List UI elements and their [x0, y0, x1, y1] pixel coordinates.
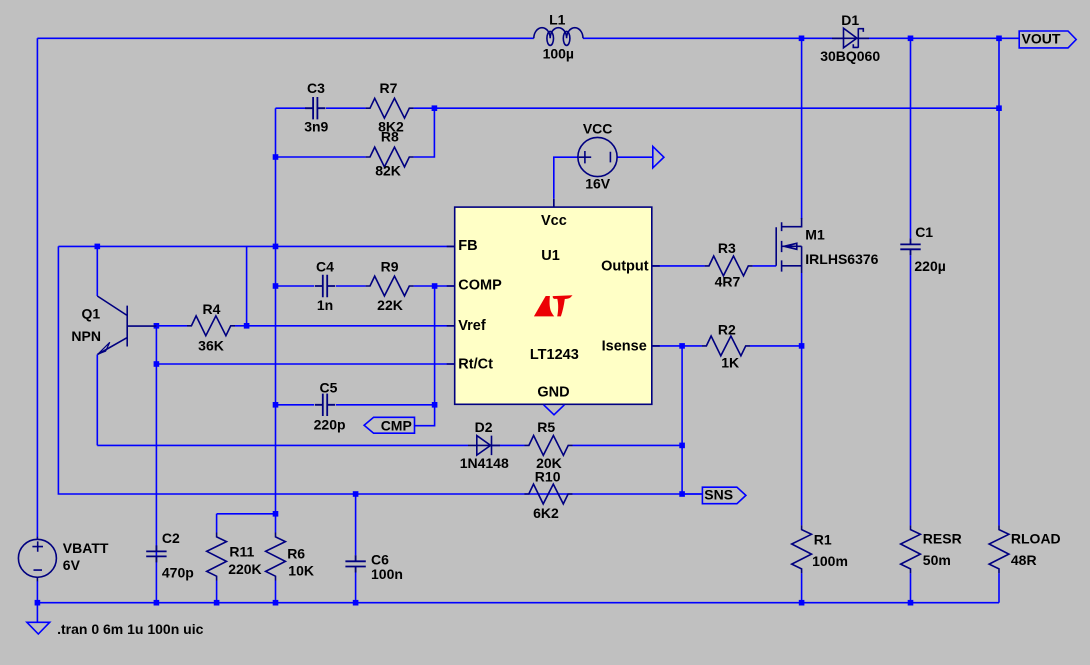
U1 part number LT1243: [530, 347, 579, 363]
wire R5 to x=682 vertical: [573, 444, 683, 446]
svg-text:LT1243: LT1243: [530, 347, 579, 363]
U1 pin label Isense: [602, 338, 647, 354]
junction ground rail / R1: [799, 600, 805, 606]
svg-text:IRLHS6376: IRLHS6376: [805, 251, 878, 267]
svg-text:.tran 0 6m 1u 100n uic: .tran 0 6m 1u 100n uic: [57, 621, 203, 637]
junction C5 line / x=275 vertical: [273, 402, 279, 408]
svg-text:SNS: SNS: [704, 486, 733, 502]
svg-text:NPN: NPN: [71, 328, 101, 344]
resistor R9: [366, 258, 414, 312]
wire emitter to D2: [97, 444, 468, 446]
junction ground rail / R6: [273, 600, 279, 606]
diode D2: [460, 419, 509, 471]
wire C6 top (SNS line down): [355, 494, 357, 555]
wire COMP-CMP vertical (x=435): [434, 286, 436, 405]
resistor RESR: [901, 525, 962, 573]
wire R8 right to R7 junction: [414, 108, 435, 157]
resistor R3: [705, 240, 753, 289]
wire top rail L1 to D1 anode: [583, 37, 844, 39]
svg-text:COMP: COMP: [458, 278, 502, 294]
wire RLOAD column top: [998, 38, 1000, 525]
transistor Q1: [71, 296, 156, 355]
wire R7 to VOUT column: [414, 107, 999, 109]
wire VBATT ground stub: [36, 603, 38, 623]
svg-text:220p: 220p: [314, 416, 346, 432]
svg-text:RESR: RESR: [923, 531, 962, 547]
port flag SNS: [702, 486, 746, 503]
svg-text:C2: C2: [162, 530, 180, 546]
svg-text:C1: C1: [915, 224, 933, 240]
resistor R11: [207, 533, 262, 581]
junction R7-R8 right: [432, 105, 438, 111]
svg-text:VOUT: VOUT: [1022, 31, 1061, 47]
svg-text:C3: C3: [307, 80, 325, 96]
wire U1 Output to R3: [652, 265, 705, 267]
wire D2 to R5: [492, 444, 525, 446]
svg-text:220K: 220K: [228, 561, 261, 577]
svg-text:R3: R3: [718, 240, 736, 256]
svg-text:22K: 22K: [377, 297, 403, 313]
wire R11 top stub: [216, 514, 218, 533]
transistor M1: [776, 218, 878, 273]
junction D2-R5 line / x=682 vertical: [679, 443, 685, 449]
junction C5 line / CMP vertical: [432, 402, 438, 408]
svg-text:100n: 100n: [371, 566, 403, 582]
svg-text:Vcc: Vcc: [541, 213, 567, 229]
svg-text:82K: 82K: [375, 163, 401, 179]
svg-text:CMP: CMP: [381, 417, 412, 433]
svg-text:6K2: 6K2: [533, 505, 559, 521]
wire Rt/Ct line: [156, 363, 454, 365]
wire vertical x=275 (C3 line down to R11/R6 top): [275, 108, 277, 514]
svg-text:470p: 470p: [162, 565, 194, 581]
wire M1 source down to R1: [801, 273, 803, 525]
junction ground rail / RESR: [908, 600, 914, 606]
junction feedback line / VOUT column: [996, 105, 1002, 111]
svg-text:VBATT: VBATT: [63, 540, 109, 556]
junction SNS line / x=682 vertical: [679, 491, 685, 497]
svg-text:RLOAD: RLOAD: [1011, 531, 1061, 547]
wire R8 line: [276, 156, 366, 158]
wire Isense vertical x=682: [681, 346, 683, 494]
U1 pin label Vcc: [541, 213, 567, 229]
wire vertical x=156 (Vref junction down through C2 to ground): [155, 326, 157, 603]
svg-text:36K: 36K: [198, 338, 224, 354]
wire VCC source leads: [554, 157, 578, 199]
resistor RLOAD: [989, 525, 1061, 573]
wire C3/R7 feedback line (y=108): [276, 107, 307, 109]
op-amp controller U1 LT1243 body: [447, 199, 660, 404]
wire Q1 emitter down: [96, 355, 98, 446]
wire top rail D1 cathode to VOUT: [858, 37, 1019, 39]
resistor R4: [187, 301, 235, 354]
svg-text:C4: C4: [316, 258, 334, 274]
wire bottom ground rail: [37, 602, 999, 604]
wire VCC right lead to arrow: [617, 156, 653, 158]
wire CMP flag stub: [415, 405, 435, 426]
spice directive: [57, 621, 203, 637]
resistor R6: [266, 533, 314, 581]
wire R6 top stub: [275, 514, 277, 533]
junction top rail / C1: [908, 36, 914, 42]
junction ground rail / R11: [214, 600, 220, 606]
wire C4 to R9: [336, 285, 366, 287]
wire R6 bottom stub: [275, 581, 277, 603]
wire FB to Vref vertical (x=247): [246, 246, 248, 325]
wire RLOAD to ground rail: [998, 573, 1000, 603]
svg-text:100µ: 100µ: [543, 45, 574, 61]
wire VBATT- to ground rail: [36, 581, 38, 603]
svg-text:C5: C5: [320, 379, 338, 395]
svg-text:R11: R11: [229, 543, 254, 559]
U1 pin label Vref: [458, 318, 486, 334]
junction R2 / M1 source rail: [799, 343, 805, 349]
wire M1 drain up to top rail: [801, 38, 803, 219]
svg-text:R8: R8: [381, 128, 399, 144]
inductor L1: [534, 11, 583, 61]
capacitor C3: [304, 80, 328, 135]
U1 GND pin triangle: [544, 405, 565, 415]
svg-text:VCC: VCC: [583, 121, 613, 137]
svg-text:220µ: 220µ: [914, 258, 945, 274]
junction SNS line / C6: [353, 491, 359, 497]
svg-text:Rt/Ct: Rt/Ct: [458, 356, 493, 372]
svg-text:100m: 100m: [812, 553, 848, 569]
wire C1 column top: [910, 38, 912, 238]
wire C1 to RESR: [910, 255, 912, 525]
wire R11/R6 top link: [217, 513, 276, 515]
ground: [27, 622, 50, 634]
svg-text:6V: 6V: [63, 557, 81, 573]
wire R3 to M1 gate: [753, 265, 777, 267]
svg-text:10K: 10K: [288, 563, 314, 579]
voltage source VBATT 6V: [18, 537, 108, 581]
svg-text:R5: R5: [537, 419, 555, 435]
resistor R5: [525, 419, 573, 471]
wire SNS line to flag: [682, 493, 702, 495]
junction ground rail / C6: [353, 600, 359, 606]
junction ground rail / VBATT: [35, 600, 41, 606]
wire FB-to-SNS vertical (x=58): [58, 246, 702, 494]
svg-text:30BQ060: 30BQ060: [820, 48, 880, 64]
resistor R1: [792, 525, 848, 573]
svg-text:Isense: Isense: [602, 338, 647, 354]
wire left rail (top rail down to VBATT+): [36, 38, 38, 537]
svg-text:R4: R4: [203, 301, 221, 317]
U1 pin label COMP: [458, 278, 502, 294]
port flag CMP: [364, 417, 414, 433]
svg-text:Vref: Vref: [458, 318, 486, 334]
junction FB / x=275 vertical: [273, 244, 279, 250]
wire Vref line left of R4: [156, 325, 187, 327]
svg-text:3n9: 3n9: [304, 118, 328, 134]
resistor R8: [366, 128, 414, 178]
U1 designator: [541, 248, 560, 264]
svg-text:R1: R1: [814, 532, 832, 548]
wire U1 Isense to R2: [652, 345, 702, 347]
junction R11/R6 top / x=275 vertical: [273, 511, 279, 517]
diode D1: [820, 12, 880, 64]
wire FB line (y=246): [58, 245, 454, 247]
resistor R2: [702, 321, 750, 370]
capacitor C4: [315, 258, 335, 312]
svg-text:48R: 48R: [1011, 552, 1037, 568]
U1 pin label GND: [537, 385, 569, 401]
svg-text:Q1: Q1: [81, 306, 100, 322]
junction Rt/Ct / x=156 vertical: [154, 361, 160, 367]
svg-text:GND: GND: [537, 385, 569, 401]
svg-text:4R7: 4R7: [715, 273, 741, 289]
wire C6 bottom: [355, 573, 357, 603]
resistor R7: [366, 80, 414, 135]
svg-text:M1: M1: [805, 226, 825, 242]
svg-text:1n: 1n: [317, 297, 333, 313]
arrow marker at VCC output: [653, 146, 664, 168]
wire COMP line left (to C4): [276, 285, 315, 287]
junction Isense / x=682 vertical: [679, 343, 685, 349]
svg-text:U1: U1: [541, 248, 560, 264]
junction Vref / Q1 base / R4: [154, 323, 160, 329]
junction COMP / CMP vertical: [432, 283, 438, 289]
resistor R10: [524, 469, 572, 521]
wire C5 line left: [276, 404, 315, 406]
wire R9 to U1 COMP: [414, 285, 455, 287]
junction FB / Q1 collector: [95, 244, 101, 250]
wire top rail left segment (VBATT+ to L1): [37, 37, 533, 39]
wire C5 to CMP vertical: [336, 404, 435, 406]
svg-text:D2: D2: [475, 419, 493, 435]
junction top rail / M1 drain: [799, 36, 805, 42]
voltage source VCC 16V: [554, 121, 617, 208]
wire R2 to M1 source rail: [750, 345, 802, 347]
U1 pin label FB: [458, 238, 477, 254]
wire R11 bottom stub: [216, 581, 218, 603]
svg-text:R2: R2: [718, 321, 736, 337]
svg-text:R6: R6: [287, 545, 305, 561]
svg-text:16V: 16V: [585, 176, 611, 192]
wire R1 to ground rail: [801, 573, 803, 603]
junction R8 left / x=275 vertical: [273, 154, 279, 160]
svg-text:1K: 1K: [721, 354, 739, 370]
svg-text:R9: R9: [381, 258, 399, 274]
junction ground rail / C2: [154, 600, 160, 606]
svg-text:Output: Output: [601, 259, 649, 275]
svg-text:L1: L1: [549, 11, 566, 27]
wire RESR to ground rail: [910, 573, 912, 603]
capacitor C2: [146, 530, 194, 581]
junction Vref / x=247 vertical / R4 right: [244, 323, 250, 329]
capacitor C1: [900, 224, 946, 274]
svg-text:D1: D1: [841, 12, 859, 28]
capacitor C6: [345, 552, 403, 583]
junction top rail / RLOAD: [996, 36, 1002, 42]
svg-text:FB: FB: [458, 238, 477, 254]
junction COMP / x=275 vertical: [273, 283, 279, 289]
svg-text:R7: R7: [380, 80, 398, 96]
wire Vref line R4 to U1: [235, 325, 455, 327]
wire C3 to R7: [326, 107, 366, 109]
svg-text:50m: 50m: [923, 552, 951, 568]
svg-text:R10: R10: [535, 469, 561, 485]
U1 LT logo: [534, 295, 573, 316]
capacitor C5: [314, 379, 346, 432]
U1 pin label Rt/Ct: [458, 356, 493, 372]
U1 pin label Output: [601, 259, 649, 275]
port flag VOUT: [1019, 31, 1076, 48]
wire Q1 collector: [96, 246, 98, 296]
svg-text:1N4148: 1N4148: [460, 455, 509, 471]
